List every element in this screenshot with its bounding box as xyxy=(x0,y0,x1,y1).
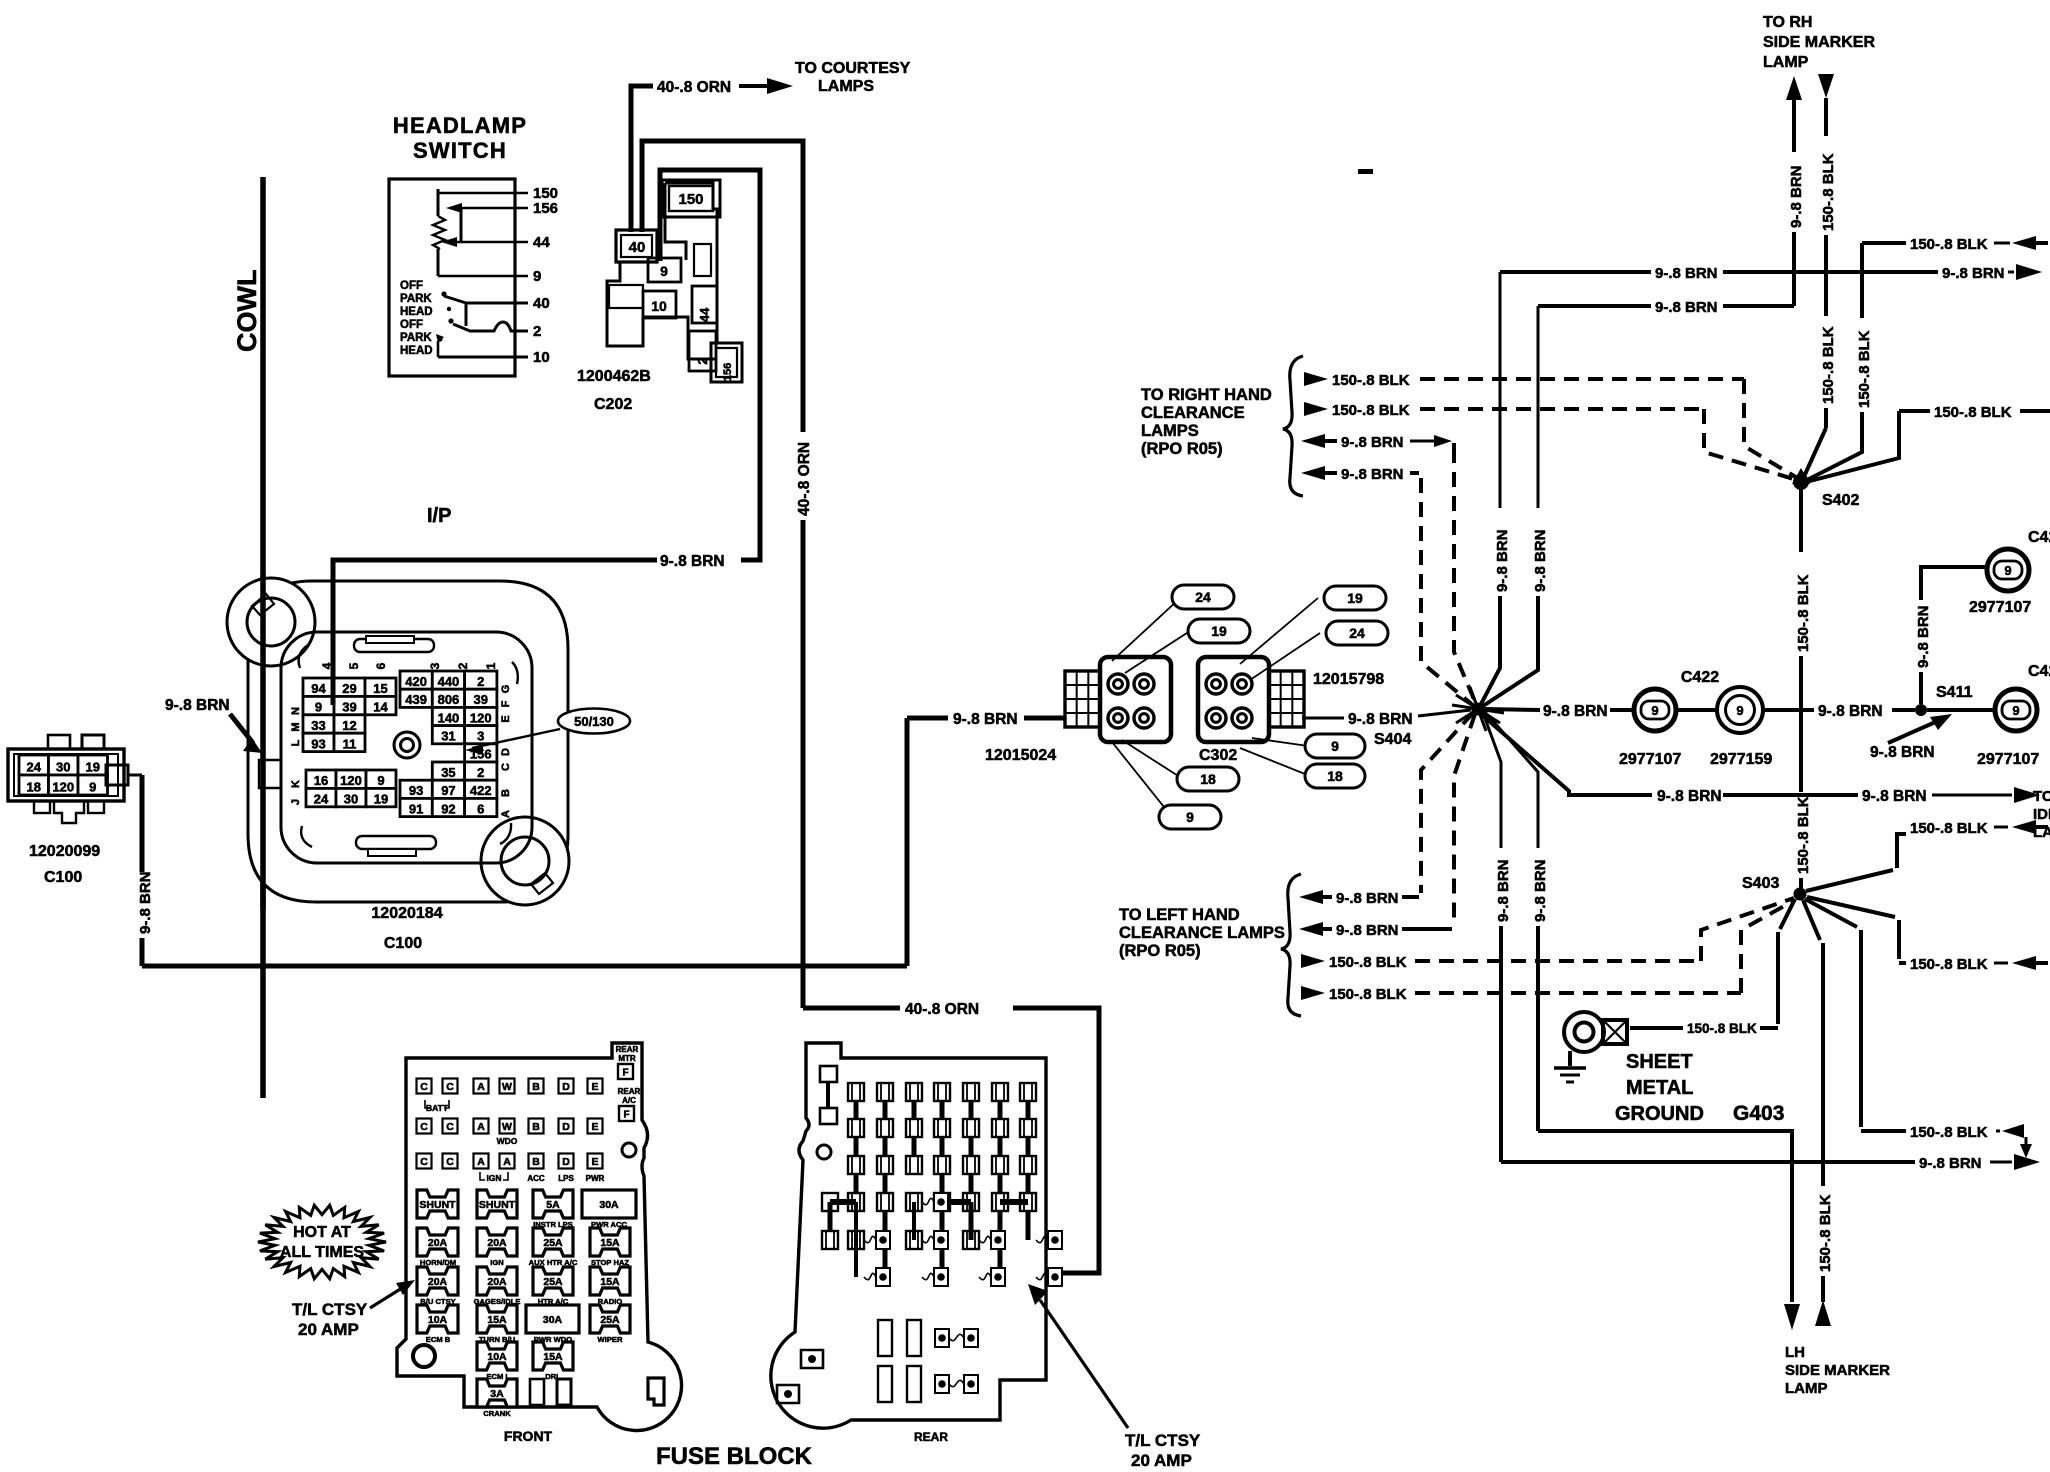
svg-text:140: 140 xyxy=(438,710,460,725)
svg-text:19: 19 xyxy=(374,791,388,806)
svg-text:GROUND: GROUND xyxy=(1615,1103,1704,1125)
svg-text:150-.8 BLK: 150-.8 BLK xyxy=(1817,1194,1834,1272)
svg-text:FUSE BLOCK: FUSE BLOCK xyxy=(656,1443,813,1470)
svg-text:A: A xyxy=(503,1156,511,1168)
svg-text:39: 39 xyxy=(474,692,488,707)
svg-text:A/C: A/C xyxy=(622,1096,636,1105)
svg-text:9: 9 xyxy=(315,699,322,714)
svg-text:50/130: 50/130 xyxy=(574,714,614,729)
svg-text:J: J xyxy=(290,799,302,805)
svg-text:G: G xyxy=(500,685,512,694)
svg-text:14: 14 xyxy=(373,699,388,714)
svg-text:IGN: IGN xyxy=(490,1258,504,1267)
svg-text:HOT AT: HOT AT xyxy=(293,1224,351,1241)
svg-text:30: 30 xyxy=(344,791,358,806)
svg-text:D: D xyxy=(562,1081,570,1093)
svg-text:20A: 20A xyxy=(428,1237,448,1249)
svg-text:30: 30 xyxy=(56,759,70,774)
svg-text:150-.8 BLK: 150-.8 BLK xyxy=(1329,986,1407,1003)
svg-text:93: 93 xyxy=(409,783,423,798)
svg-text:24: 24 xyxy=(314,791,329,806)
svg-text:156: 156 xyxy=(722,363,734,381)
svg-text:97: 97 xyxy=(441,783,455,798)
svg-text:25A: 25A xyxy=(543,1237,563,1249)
svg-text:9-.8 BRN: 9-.8 BRN xyxy=(1494,529,1511,592)
svg-text:T/L CTSY: T/L CTSY xyxy=(1125,1431,1201,1450)
svg-text:150-.8 BLK: 150-.8 BLK xyxy=(1910,1124,1988,1141)
svg-text:33: 33 xyxy=(311,718,325,733)
svg-text:2: 2 xyxy=(456,662,470,669)
svg-text:9-.8 BRN: 9-.8 BRN xyxy=(1915,605,1932,668)
svg-text:C100: C100 xyxy=(384,935,422,952)
svg-text:LPS: LPS xyxy=(558,1174,574,1183)
svg-text:2977107: 2977107 xyxy=(1977,751,2039,768)
svg-text:A: A xyxy=(500,810,512,818)
svg-text:3A: 3A xyxy=(490,1388,504,1400)
svg-text:LH: LH xyxy=(1785,1344,1805,1361)
svg-text:E: E xyxy=(591,1121,598,1133)
svg-text:150-.8 BLK: 150-.8 BLK xyxy=(1687,1021,1757,1036)
svg-text:6: 6 xyxy=(477,801,484,816)
svg-text:40: 40 xyxy=(629,239,646,256)
svg-text:9-.8 BRN: 9-.8 BRN xyxy=(1870,744,1935,761)
svg-text:(RPO R05): (RPO R05) xyxy=(1141,440,1223,458)
svg-text:150-.8 BLK: 150-.8 BLK xyxy=(1910,236,1988,253)
svg-text:39: 39 xyxy=(342,699,356,714)
svg-text:9: 9 xyxy=(2012,703,2019,718)
svg-text:SHUNT: SHUNT xyxy=(419,1199,456,1211)
svg-text:44: 44 xyxy=(533,234,550,251)
svg-text:3: 3 xyxy=(477,729,484,744)
svg-text:24: 24 xyxy=(27,759,42,774)
svg-text:9-.8 BRN: 9-.8 BRN xyxy=(137,871,154,934)
svg-text:C: C xyxy=(446,1121,454,1133)
svg-text:9-.8 BRN: 9-.8 BRN xyxy=(1818,703,1883,720)
svg-text:LAMP: LAMP xyxy=(1763,54,1809,71)
svg-text:9-.8 BRN: 9-.8 BRN xyxy=(1919,1155,1982,1172)
svg-text:9-.8 BRN: 9-.8 BRN xyxy=(1336,890,1399,907)
svg-text:LAMPS: LAMPS xyxy=(1141,422,1199,440)
svg-text:19: 19 xyxy=(86,759,100,774)
svg-text:9-.8 BRN: 9-.8 BRN xyxy=(165,697,230,714)
svg-text:9-.8 BRN: 9-.8 BRN xyxy=(1862,788,1927,805)
svg-text:20 AMP: 20 AMP xyxy=(298,1320,359,1339)
svg-text:ECM I: ECM I xyxy=(486,1372,507,1381)
svg-text:M: M xyxy=(290,722,302,731)
svg-text:9: 9 xyxy=(1186,809,1194,825)
svg-text:C42: C42 xyxy=(2028,663,2050,680)
svg-text:120: 120 xyxy=(340,773,362,788)
svg-text:C202: C202 xyxy=(594,396,632,413)
svg-text:156: 156 xyxy=(533,200,558,217)
svg-text:ALL TIMES: ALL TIMES xyxy=(280,1244,364,1261)
svg-text:150-.8 BLK: 150-.8 BLK xyxy=(1332,402,1410,419)
svg-text:METAL: METAL xyxy=(1626,1077,1693,1099)
svg-text:K: K xyxy=(290,780,302,788)
svg-text:18: 18 xyxy=(1327,768,1343,784)
svg-text:C: C xyxy=(420,1156,428,1168)
svg-text:150-.8 BLK: 150-.8 BLK xyxy=(1910,956,1988,973)
svg-text:SWITCH: SWITCH xyxy=(413,138,507,163)
svg-text:REAR: REAR xyxy=(914,1430,948,1444)
svg-text:10: 10 xyxy=(533,349,550,366)
svg-text:2: 2 xyxy=(533,323,541,340)
svg-text:TO: TO xyxy=(2033,788,2050,805)
svg-text:19: 19 xyxy=(1347,590,1363,606)
svg-text:C: C xyxy=(420,1081,428,1093)
svg-text:9-.8 BRN: 9-.8 BRN xyxy=(1532,859,1549,922)
svg-text:5A: 5A xyxy=(546,1199,560,1211)
svg-text:18: 18 xyxy=(1200,771,1216,787)
svg-text:RADIO: RADIO xyxy=(598,1297,623,1306)
svg-text:120: 120 xyxy=(52,779,74,794)
svg-text:40-.8 ORN: 40-.8 ORN xyxy=(796,442,813,516)
svg-text:F: F xyxy=(500,700,512,707)
svg-text:SIDE MARKER: SIDE MARKER xyxy=(1763,34,1875,51)
svg-text:C42: C42 xyxy=(2028,529,2050,546)
svg-text:150-.8 BLK: 150-.8 BLK xyxy=(1795,796,1812,874)
svg-text:FRONT: FRONT xyxy=(504,1428,553,1444)
svg-text:439: 439 xyxy=(405,692,427,707)
svg-text:PWR: PWR xyxy=(586,1174,605,1183)
svg-text:LAMP: LAMP xyxy=(1785,1380,1828,1397)
svg-text:120: 120 xyxy=(470,710,492,725)
svg-text:25A: 25A xyxy=(543,1276,563,1288)
svg-text:C: C xyxy=(500,763,512,771)
svg-text:LAMPS: LAMPS xyxy=(818,78,874,95)
svg-text:C100: C100 xyxy=(44,869,82,886)
svg-text:9: 9 xyxy=(377,773,384,788)
svg-text:91: 91 xyxy=(409,801,423,816)
svg-text:9-.8 BRN: 9-.8 BRN xyxy=(1341,466,1404,483)
svg-text:20A: 20A xyxy=(487,1237,507,1249)
svg-text:2977159: 2977159 xyxy=(1710,751,1772,768)
svg-text:20A: 20A xyxy=(428,1276,448,1288)
svg-text:10A: 10A xyxy=(487,1351,507,1363)
svg-text:F: F xyxy=(623,1110,629,1121)
svg-text:W: W xyxy=(502,1121,512,1133)
svg-text:D: D xyxy=(562,1121,570,1133)
svg-text:ECM B: ECM B xyxy=(426,1335,451,1344)
svg-text:150-.8 BLK: 150-.8 BLK xyxy=(1910,820,1988,837)
svg-text:ACC: ACC xyxy=(527,1174,545,1183)
svg-text:9-.8 BRN: 9-.8 BRN xyxy=(1655,265,1718,282)
svg-text:TO LEFT HAND: TO LEFT HAND xyxy=(1119,906,1240,924)
svg-text:9-.8 BRN: 9-.8 BRN xyxy=(1657,788,1722,805)
svg-text:CLEARANCE: CLEARANCE xyxy=(1141,404,1245,422)
svg-text:T/L CTSY: T/L CTSY xyxy=(292,1300,368,1319)
svg-text:12020099: 12020099 xyxy=(29,843,100,860)
svg-text:9: 9 xyxy=(533,268,541,285)
svg-text:C: C xyxy=(446,1081,454,1093)
svg-text:REAR: REAR xyxy=(618,1087,641,1096)
svg-text:94: 94 xyxy=(311,681,326,696)
svg-text:2977107: 2977107 xyxy=(1969,599,2031,616)
svg-text:150-.8 BLK: 150-.8 BLK xyxy=(1820,326,1837,404)
svg-text:TO RIGHT HAND: TO RIGHT HAND xyxy=(1141,386,1272,404)
svg-text:9-.8 BRN: 9-.8 BRN xyxy=(1942,265,2005,282)
svg-text:25A: 25A xyxy=(600,1314,620,1326)
svg-text:40-.8 ORN: 40-.8 ORN xyxy=(657,79,731,96)
svg-text:150-.8 BLK: 150-.8 BLK xyxy=(1934,404,2012,421)
svg-text:24: 24 xyxy=(1349,625,1365,641)
svg-text:E: E xyxy=(591,1156,598,1168)
svg-text:HEAD: HEAD xyxy=(400,345,433,357)
svg-text:MTR: MTR xyxy=(618,1054,636,1063)
svg-text:WIPER: WIPER xyxy=(598,1335,623,1344)
svg-text:C422: C422 xyxy=(1681,669,1719,686)
svg-text:2977107: 2977107 xyxy=(1619,751,1681,768)
svg-text:11: 11 xyxy=(343,736,357,751)
svg-text:16: 16 xyxy=(314,773,328,788)
svg-text:150-.8 BLK: 150-.8 BLK xyxy=(1795,574,1812,652)
svg-text:20 AMP: 20 AMP xyxy=(1131,1451,1192,1470)
svg-text:N: N xyxy=(290,707,302,715)
svg-text:B: B xyxy=(532,1156,540,1168)
svg-text:150-.8 BLK: 150-.8 BLK xyxy=(1820,153,1837,231)
svg-text:9-.8 BRN: 9-.8 BRN xyxy=(1543,703,1608,720)
svg-text:1200462B: 1200462B xyxy=(577,368,651,385)
svg-text:12015798: 12015798 xyxy=(1313,671,1384,688)
svg-text:E: E xyxy=(591,1081,598,1093)
svg-text:31: 31 xyxy=(441,729,455,744)
svg-text:9-.8 BRN: 9-.8 BRN xyxy=(1655,299,1718,316)
svg-text:9-.8 BRN: 9-.8 BRN xyxy=(1341,434,1404,451)
svg-text:420: 420 xyxy=(405,674,427,689)
svg-text:PARK: PARK xyxy=(400,332,432,344)
svg-text:30A: 30A xyxy=(599,1199,619,1211)
svg-text:9-.8 BRN: 9-.8 BRN xyxy=(953,711,1018,728)
svg-text:CLEARANCE LAMPS: CLEARANCE LAMPS xyxy=(1119,924,1285,942)
svg-text:40-.8 ORN: 40-.8 ORN xyxy=(905,1001,979,1018)
svg-text:B: B xyxy=(500,789,512,797)
svg-text:F: F xyxy=(622,1068,628,1079)
svg-text:COWL: COWL xyxy=(232,270,262,352)
svg-text:806: 806 xyxy=(438,692,460,707)
svg-text:SHUNT: SHUNT xyxy=(479,1199,516,1211)
svg-text:150-.8 BLK: 150-.8 BLK xyxy=(1329,954,1407,971)
svg-text:CRANK: CRANK xyxy=(483,1409,511,1418)
svg-text:2: 2 xyxy=(477,674,484,689)
svg-text:B: B xyxy=(532,1121,540,1133)
svg-text:S402: S402 xyxy=(1822,492,1859,509)
svg-text:E: E xyxy=(500,715,512,722)
svg-text:15A: 15A xyxy=(600,1237,620,1249)
svg-text:422: 422 xyxy=(470,783,492,798)
svg-text:IGN: IGN xyxy=(486,1173,501,1183)
svg-text:G403: G403 xyxy=(1733,1102,1784,1125)
svg-text:9-.8 BRN: 9-.8 BRN xyxy=(1336,922,1399,939)
svg-text:OFF: OFF xyxy=(400,280,423,292)
svg-text:29: 29 xyxy=(342,681,356,696)
svg-text:I/P: I/P xyxy=(427,505,451,527)
svg-text:20A: 20A xyxy=(487,1276,507,1288)
svg-text:92: 92 xyxy=(441,801,455,816)
svg-text:A: A xyxy=(477,1081,485,1093)
svg-text:S411: S411 xyxy=(1936,684,1973,701)
svg-text:WDO: WDO xyxy=(497,1136,518,1146)
svg-text:35: 35 xyxy=(441,765,455,780)
svg-text:C302: C302 xyxy=(1199,747,1237,764)
svg-text:9-.8 BRN: 9-.8 BRN xyxy=(1532,529,1549,592)
svg-text:C: C xyxy=(420,1121,428,1133)
svg-text:10A: 10A xyxy=(428,1314,448,1326)
svg-text:44: 44 xyxy=(697,307,712,322)
svg-text:18: 18 xyxy=(27,779,41,794)
svg-text:L: L xyxy=(290,739,302,746)
svg-text:SHEET: SHEET xyxy=(1626,1051,1693,1073)
svg-text:A: A xyxy=(477,1156,485,1168)
svg-text:150-.8 BLK: 150-.8 BLK xyxy=(1856,330,1873,408)
svg-text:5: 5 xyxy=(347,662,361,669)
svg-text:C: C xyxy=(446,1156,454,1168)
svg-text:HEAD: HEAD xyxy=(400,306,433,318)
svg-text:15: 15 xyxy=(373,681,387,696)
svg-text:PARK: PARK xyxy=(400,293,432,305)
svg-text:W: W xyxy=(502,1081,512,1093)
svg-text:440: 440 xyxy=(438,674,460,689)
svg-text:TO COURTESY: TO COURTESY xyxy=(795,60,911,77)
svg-text:2: 2 xyxy=(695,357,710,364)
svg-text:9: 9 xyxy=(1651,703,1658,718)
svg-text:9: 9 xyxy=(660,263,668,279)
svg-text:6: 6 xyxy=(374,662,388,669)
svg-text:1: 1 xyxy=(484,662,498,669)
svg-text:150: 150 xyxy=(678,191,703,208)
svg-text:D: D xyxy=(562,1156,570,1168)
svg-text:15A: 15A xyxy=(487,1314,507,1326)
svg-text:A: A xyxy=(477,1121,485,1133)
svg-text:93: 93 xyxy=(311,736,325,751)
svg-text:24: 24 xyxy=(1195,589,1211,605)
svg-text:12020184: 12020184 xyxy=(371,905,442,922)
svg-text:9: 9 xyxy=(2004,563,2011,578)
svg-text:12015024: 12015024 xyxy=(985,747,1056,764)
svg-text:OFF: OFF xyxy=(400,319,423,331)
svg-text:9: 9 xyxy=(1331,738,1339,754)
svg-text:B: B xyxy=(532,1081,540,1093)
svg-text:HEADLAMP: HEADLAMP xyxy=(393,113,527,138)
svg-text:9-.8 BRN: 9-.8 BRN xyxy=(1788,165,1805,228)
svg-text:9-.8 BRN: 9-.8 BRN xyxy=(1348,711,1413,728)
svg-text:9-.8 BRN: 9-.8 BRN xyxy=(1495,859,1512,922)
svg-text:S403: S403 xyxy=(1742,875,1779,892)
svg-text:9: 9 xyxy=(89,779,96,794)
svg-text:3: 3 xyxy=(428,662,442,669)
svg-text:9-.8 BRN: 9-.8 BRN xyxy=(660,553,725,570)
svg-text:(RPO R05): (RPO R05) xyxy=(1119,942,1201,960)
svg-text:10: 10 xyxy=(651,298,667,314)
svg-text:S404: S404 xyxy=(1374,731,1411,748)
svg-text:19: 19 xyxy=(1211,623,1227,639)
svg-text:15A: 15A xyxy=(600,1276,620,1288)
svg-text:2: 2 xyxy=(477,765,484,780)
svg-text:9: 9 xyxy=(1736,703,1743,718)
svg-text:D: D xyxy=(500,748,512,756)
svg-text:40: 40 xyxy=(533,295,550,312)
svg-text:TO RH: TO RH xyxy=(1763,14,1812,31)
svg-text:12: 12 xyxy=(342,718,356,733)
svg-text:30A: 30A xyxy=(543,1314,563,1326)
svg-text:SIDE MARKER: SIDE MARKER xyxy=(1785,1362,1890,1379)
svg-text:15A: 15A xyxy=(543,1351,563,1363)
svg-text:150-.8 BLK: 150-.8 BLK xyxy=(1332,372,1410,389)
svg-text:REAR: REAR xyxy=(616,1045,639,1054)
